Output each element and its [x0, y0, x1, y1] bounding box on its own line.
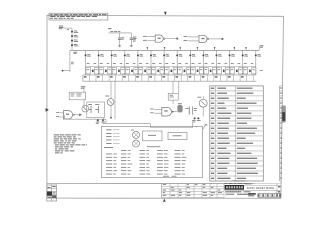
svg-text:SONIC RESET MODE: SONIC RESET MODE — [247, 186, 275, 190]
